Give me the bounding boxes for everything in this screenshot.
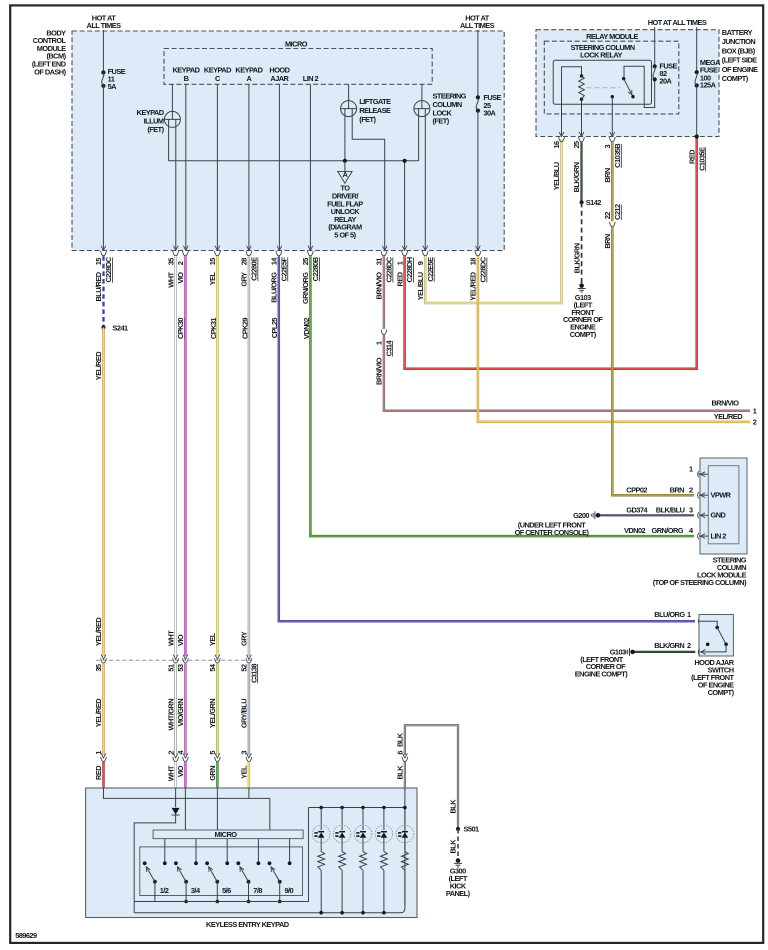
svg-text:C1035E: C1035E: [697, 147, 706, 171]
svg-text:C228DC: C228DC: [385, 256, 394, 282]
svg-text:9: 9: [416, 261, 425, 265]
wire from HOT AT ALL TIMES to fuse 25: [477, 30, 479, 97]
svg-text:YEL: YEL: [208, 632, 217, 646]
svg-text:YEL/BLU: YEL/BLU: [416, 272, 425, 300]
wire WHT into keypad: [175, 788, 177, 807]
svg-text:C22E5F: C22E5F: [279, 256, 288, 281]
wire YEL/RED BCM pin 18 to right edge pin 2: [478, 256, 750, 422]
svg-text:HOT AT ALL TIMES: HOT AT ALL TIMES: [648, 18, 707, 27]
switch 3/4: [174, 861, 201, 894]
svg-text:31: 31: [375, 258, 384, 266]
wire resistor R2 to bottom rail: [341, 870, 343, 912]
svg-text:GD374: GD374: [626, 505, 648, 514]
svg-text:25: 25: [301, 258, 310, 266]
pin 35 WHT of BCM + circuit CPK30: [166, 251, 185, 339]
svg-text:RED: RED: [395, 271, 404, 286]
resistor R5 (keypad LED): [402, 852, 409, 871]
svg-text:16: 16: [552, 141, 561, 149]
svg-text:LOCK RELAY: LOCK RELAY: [580, 51, 622, 60]
svg-text:BLU/ORG: BLU/ORG: [654, 610, 685, 619]
pin 2 VIO of BCM: [176, 251, 188, 283]
svg-text:589629: 589629: [15, 931, 37, 940]
wire YEL/GRN C3138 to keypad connector pin 5: [216, 664, 219, 755]
svg-text:COMPT): COMPT): [722, 74, 749, 83]
labels KEYPAD B / KEYPAD C / KEYPAD A / HOOD AJAR / LIN 2: [173, 66, 319, 83]
pin 25 GRN/ORG of BCM + connector C2280B + circuit VDN02: [301, 251, 320, 339]
transistor LIFTGATE RELEASE (FET): [341, 84, 391, 250]
svg-text:BATTERY: BATTERY: [722, 28, 753, 37]
svg-text:BLU/RED: BLU/RED: [94, 271, 103, 301]
svg-text:1: 1: [689, 465, 693, 474]
connector C3138 (inline): [94, 655, 258, 683]
svg-text:28: 28: [240, 258, 249, 266]
pin 9 YEL/BLU of BCM + connector C22E5E: [416, 251, 435, 300]
wire diode to switch common rail: [134, 815, 175, 913]
svg-text:BLK: BLK: [396, 732, 405, 747]
wire HOT AT ALL TIMES to mega fuse: [696, 27, 698, 72]
svg-text:YEL/RED: YEL/RED: [469, 271, 478, 300]
wire keypad bottom rail: [134, 808, 405, 913]
splice S241: [101, 324, 128, 333]
svg-text:(TOP OF STEERING COLUMN): (TOP OF STEERING COLUMN): [653, 578, 747, 587]
module box: RELAY MODULE / BJB: [536, 30, 719, 137]
wire GRN/ORG BCM pin 25 to module pin 4 LIN 2: [310, 256, 694, 536]
wire MICRO to switch 1/2: [164, 839, 166, 864]
wire WHT/GRN C3138 to keypad connector pin 2: [174, 664, 177, 755]
wire BRN/VIO from C314 to right edge pin 1: [384, 335, 750, 411]
wire BRN relay pin 3 to connector C212: [611, 142, 614, 221]
switch 1/2: [143, 861, 169, 894]
wire relay pin 3 to box edge: [611, 104, 613, 136]
svg-text:MICRO: MICRO: [215, 830, 238, 839]
svg-text:VIO: VIO: [176, 765, 185, 777]
fuse 82 20A: [653, 62, 678, 86]
module box: STEERING COLUMN LOCK RELAY (inner dashed): [544, 41, 679, 114]
svg-text:RED: RED: [687, 149, 696, 164]
svg-text:YEL: YEL: [208, 271, 217, 285]
svg-text:LIN 2: LIN 2: [303, 74, 319, 83]
pin 1 RED of BCM + connector C228DH: [395, 251, 414, 286]
svg-text:C314: C314: [384, 340, 393, 357]
svg-text:AJAR: AJAR: [270, 74, 289, 83]
pin 25 BLK/GRN of relay module: [572, 137, 584, 192]
svg-text:C1035B: C1035B: [613, 144, 622, 168]
pin 2 VPWR of module: [626, 485, 731, 499]
svg-text:3: 3: [689, 505, 693, 514]
svg-text:WHT: WHT: [166, 271, 175, 287]
svg-text:1: 1: [395, 261, 404, 265]
module box: KEYLESS ENTRY KEYPAD: [86, 788, 417, 918]
wire switch 7/8 to common rail: [248, 882, 250, 902]
svg-text:3/4: 3/4: [191, 886, 201, 895]
svg-text:(FET): (FET): [359, 115, 376, 124]
svg-text:7/8: 7/8: [253, 886, 262, 895]
resistor R4 (keypad LED): [381, 852, 388, 871]
svg-text:22: 22: [603, 212, 612, 220]
wire LIN 2 to BCM pin 25: [309, 84, 311, 250]
wire VIO/GRN C3138 to keypad connector pin 4: [184, 664, 187, 755]
wire MICRO to switch 5/6: [226, 839, 228, 864]
wire switch 1/2 to common rail: [154, 882, 156, 902]
label HOT AT ALL TIMES (middle): [460, 13, 495, 30]
svg-text:18: 18: [469, 258, 478, 266]
svg-text:RELAY MODULE: RELAY MODULE: [586, 32, 638, 41]
svg-text:RED: RED: [94, 765, 103, 780]
LED 3 (keypad illumination): [354, 806, 372, 852]
svg-text:GRY/BLU: GRY/BLU: [240, 699, 249, 728]
wire fuse 11 to BCM pin 15: [102, 86, 104, 251]
svg-text:BRN/VIO: BRN/VIO: [712, 398, 740, 407]
svg-text:C212: C212: [613, 204, 622, 220]
svg-text:5/6: 5/6: [222, 886, 231, 895]
wire BRN from C212 to module pin 2 VPWR: [612, 227, 694, 495]
diode D1 (keypad feed): [172, 808, 180, 815]
svg-text:1: 1: [94, 751, 103, 755]
wire MICRO to switch 7/8: [257, 839, 259, 864]
connector C212 pin 22: [603, 204, 622, 249]
svg-text:OF DASH): OF DASH): [34, 67, 66, 76]
svg-text:MICRO: MICRO: [285, 39, 308, 48]
svg-text:3: 3: [240, 751, 249, 755]
wire GRN into keypad MICRO: [216, 788, 218, 830]
label HOT AT ALL TIMES (left): [87, 13, 122, 30]
svg-text:BRN/VIO: BRN/VIO: [375, 357, 384, 385]
pin 15 BLU/RED of BCM + connector C228DC: [94, 251, 113, 301]
wire BLK from LED rail to keypad connector pin 6: [404, 788, 406, 808]
wire BLK keypad to splice S501: [405, 725, 458, 829]
svg-text:1/2: 1/2: [160, 886, 169, 895]
module box: BODY CONTROL MODULE (BCM): [72, 31, 504, 251]
wire YEL into keypad: [248, 788, 250, 798]
svg-text:BLK/GRN: BLK/GRN: [654, 641, 684, 650]
wire YEL BCM pin 15 to connector C3138: [216, 256, 219, 656]
svg-text:OF ENGINE: OF ENGINE: [722, 65, 758, 74]
pin 15 YEL of BCM + circuit CPK31: [208, 251, 220, 339]
LED 4 (keypad illumination): [375, 806, 393, 852]
svg-text:YEL/GRN: YEL/GRN: [208, 699, 217, 728]
fuse 11 5A: [101, 67, 125, 91]
wire switch common rail: [134, 808, 308, 902]
node RED at box edge: [695, 134, 699, 138]
svg-text:2: 2: [753, 417, 757, 426]
svg-text:C2280E: C2280E: [250, 257, 259, 281]
fuse MEGA FUSE 100 125A: [695, 58, 721, 89]
svg-text:VIO: VIO: [176, 272, 185, 284]
pin 1 of module (stub): [689, 465, 708, 478]
svg-text:BLK/GRN: BLK/GRN: [572, 162, 581, 192]
wire KEYPAD A to BCM pin 28: [248, 84, 250, 250]
label hood ajar switch: [691, 658, 735, 697]
svg-text:BLK/GRN: BLK/GRN: [572, 243, 581, 273]
LED 1 (keypad illumination): [312, 806, 330, 852]
wire mega fuse to box edge: [696, 86, 698, 137]
svg-text:ALL TIMES: ALL TIMES: [87, 21, 122, 30]
svg-text:BLK/BLU: BLK/BLU: [656, 505, 685, 514]
svg-text:35: 35: [94, 664, 103, 672]
svg-text:2: 2: [166, 751, 175, 755]
svg-text:C2280B: C2280B: [311, 257, 320, 281]
wire KEYPAD B to BCM pin 2: [185, 84, 187, 250]
wire HOT AT ALL TIMES to fuse 82: [654, 27, 656, 66]
module box: STEERING COLUMN LOCK MODULE: [653, 458, 747, 587]
svg-text:125A: 125A: [700, 80, 717, 89]
svg-text:GRY: GRY: [240, 272, 249, 287]
svg-text:(FET): (FET): [433, 117, 450, 126]
wire GRY BCM pin 28 to connector C3138: [248, 256, 251, 656]
svg-text:VIO/GRN: VIO/GRN: [176, 699, 185, 727]
label BLU/ORG pin 1 of hood ajar switch: [654, 610, 705, 624]
wire GRN keypad connector to keypad: [216, 762, 219, 788]
wire BLU/ORG BCM pin 14 to hood ajar switch pin 1: [279, 256, 695, 621]
ground G103: [563, 283, 603, 339]
wire BLK/GRN hood ajar switch to ground G103: [634, 651, 695, 653]
svg-text:B: B: [184, 74, 189, 83]
node junction to relay A: [343, 159, 347, 163]
fuse 25 30A: [476, 93, 502, 117]
svg-text:CPK30: CPK30: [176, 318, 185, 340]
svg-text:WHT: WHT: [166, 765, 175, 781]
svg-text:GND: GND: [711, 511, 727, 520]
splice S142: [580, 198, 602, 207]
svg-text:52: 52: [240, 664, 249, 672]
svg-text:25: 25: [572, 141, 581, 149]
wire MICRO to switch 9/0: [289, 839, 291, 864]
svg-text:YEL/BLU: YEL/BLU: [552, 162, 561, 190]
wire MICRO to switch 3/4: [195, 839, 197, 864]
wire VIO into keypad MICRO: [184, 788, 186, 830]
svg-text:51: 51: [166, 664, 175, 672]
svg-text:GRY: GRY: [240, 631, 249, 646]
wire WHT BCM pin 35 to connector C3138: [174, 256, 177, 656]
wire BLK/GRN S142 to ground G103 (dashed): [581, 202, 583, 283]
wire VIO keypad connector to keypad: [184, 762, 187, 788]
svg-text:5A: 5A: [108, 82, 118, 91]
resistor R1 (keypad LED): [318, 852, 325, 871]
svg-text:VIO: VIO: [176, 634, 185, 646]
svg-text:OF CENTER CONSOLE): OF CENTER CONSOLE): [515, 528, 590, 537]
pin 14 BLU/ORG of BCM + connector C22E5F + circuit CPL25: [270, 251, 289, 338]
svg-text:S142: S142: [586, 198, 602, 207]
svg-text:5: 5: [208, 751, 217, 755]
svg-text:BRN: BRN: [603, 234, 612, 249]
pin 4 LIN 2 of module: [624, 526, 726, 540]
wire YEL keypad connector to keypad: [248, 762, 251, 788]
ground G103 (hood ajar): [575, 647, 635, 678]
wire BRN/VIO BCM pin 31 to connector C314: [383, 256, 386, 329]
box: keypad switch bank: [140, 847, 303, 896]
keypad connector pins: [94, 750, 252, 762]
svg-text:15: 15: [208, 258, 217, 266]
wire FET output rail: [169, 160, 419, 162]
wire KEYPAD C to BCM pin 15: [216, 84, 218, 250]
wire RED keypad connector to keypad: [102, 762, 105, 788]
svg-text:LIFTGATE: LIFTGATE: [359, 97, 391, 106]
pin 28 GRY of BCM + connector C2280E + circuit CPK29: [240, 251, 259, 339]
wire from HOT AT ALL TIMES to fuse 11: [102, 30, 104, 73]
svg-text:RELEASE: RELEASE: [359, 106, 391, 115]
svg-text:2: 2: [687, 641, 691, 650]
svg-text:2: 2: [176, 261, 185, 265]
resistor R2 (keypad LED): [339, 852, 346, 871]
svg-text:9/0: 9/0: [284, 886, 293, 895]
label BLK/GRN pin 2 of hood ajar switch: [654, 641, 705, 655]
svg-text:5 OF 5): 5 OF 5): [334, 231, 356, 240]
switch 5/6: [205, 861, 231, 894]
wire BLU/RED BCM pin 15 to splice S241: [102, 256, 104, 327]
svg-text:53: 53: [176, 664, 185, 672]
svg-text:VPWR: VPWR: [711, 491, 732, 500]
wire BLK S501 to ground G300 (dashed): [457, 829, 459, 859]
svg-text:COMPT): COMPT): [708, 688, 735, 697]
wire junction to BCM pin 1: [404, 161, 406, 251]
svg-text:BRN: BRN: [670, 485, 685, 494]
wire BLK/BLU module pin 3 to ground G200: [600, 514, 694, 516]
svg-text:1: 1: [753, 406, 757, 415]
wire GRY/BLU C3138 to keypad connector pin 3: [248, 664, 251, 755]
transistor KEYPAD ILLUM (FET): [137, 84, 181, 250]
splice S501: [456, 825, 479, 834]
switch 9/0: [268, 861, 294, 894]
wire resistor R3 to bottom rail: [362, 870, 364, 912]
svg-text:BRN/VIO: BRN/VIO: [375, 272, 384, 300]
svg-text:YEL/RED: YEL/RED: [94, 698, 103, 727]
wire resistor R1 to bottom rail: [320, 870, 322, 912]
svg-text:2: 2: [689, 485, 693, 494]
svg-text:CPP02: CPP02: [626, 485, 647, 494]
svg-text:PANEL): PANEL): [446, 889, 471, 898]
wire relay pin 16 to box edge: [561, 104, 563, 136]
svg-text:KEYLESS ENTRY KEYPAD: KEYLESS ENTRY KEYPAD: [206, 920, 290, 929]
svg-text:BLK: BLK: [396, 765, 405, 780]
svg-text:S501: S501: [464, 825, 480, 834]
LED 2 (keypad illumination): [333, 806, 351, 852]
svg-text:C228DH: C228DH: [405, 257, 414, 282]
connector C314 pin 1: [375, 330, 394, 385]
wire switch 9/0 to common rail: [279, 882, 281, 902]
LED 5 (keypad illumination): [396, 808, 414, 852]
svg-text:WHT/GRN: WHT/GRN: [166, 699, 175, 731]
svg-text:WHT: WHT: [166, 630, 175, 646]
svg-text:YEL: YEL: [240, 765, 249, 779]
off-page connector A: TO DRIVER/FUEL FLAP UNLOCK RELAY: [327, 161, 363, 240]
wire resistor R4 to bottom rail: [383, 870, 385, 912]
wire YEL/RED C3138 to keypad connector pin 1: [102, 664, 105, 755]
svg-text:GRN: GRN: [208, 766, 217, 781]
svg-text:BLK: BLK: [449, 799, 458, 814]
pin 16 YEL/BLU of relay module: [552, 137, 564, 190]
label BODY CONTROL MODULE (BCM) (LEFT END OF DASH): [32, 28, 67, 76]
wire BLK/GRN relay pin 25 to splice S142: [580, 142, 582, 202]
wire YEL/BLU BCM pin 9 to relay pin 16: [425, 139, 561, 303]
svg-text:GRN/ORG: GRN/ORG: [652, 526, 684, 535]
pin 18 YEL/RED of BCM + connector C228DC: [469, 251, 488, 301]
wire YEL/RED from S241 to connector C3138: [102, 328, 105, 657]
wire HOOD AJAR to BCM pin 14: [278, 84, 280, 250]
svg-text:(LEFT SIDE: (LEFT SIDE: [722, 56, 757, 65]
svg-text:YEL/RED: YEL/RED: [714, 412, 743, 421]
resistor R3 (keypad LED): [360, 852, 367, 871]
pin 31 BRN/VIO of BCM + connector C228DC: [375, 251, 394, 299]
wire relay pin 25 to box edge: [581, 104, 583, 136]
wire switch 5/6 to common rail: [216, 882, 218, 902]
svg-text:15: 15: [94, 258, 103, 266]
svg-text:6: 6: [396, 751, 405, 755]
svg-text:1: 1: [375, 341, 384, 345]
switch: hood ajar switch: [699, 615, 733, 657]
wire RED BCM pin 1 to mega fuse via C1035E: [405, 137, 697, 369]
svg-text:G200: G200: [573, 511, 589, 520]
svg-text:20A: 20A: [659, 77, 672, 86]
svg-text:JUNCTION: JUNCTION: [722, 37, 756, 46]
svg-text:BLK: BLK: [449, 839, 458, 854]
ground G200: [515, 511, 601, 537]
svg-text:ALL TIMES: ALL TIMES: [460, 21, 495, 30]
svg-text:30A: 30A: [483, 109, 496, 118]
svg-text:C22E5E: C22E5E: [426, 257, 435, 282]
module box: MICRO (keypad): [153, 830, 303, 839]
wire WHT keypad connector to keypad: [174, 762, 177, 788]
pin 3 BRN of relay module + connector C1035B: [603, 137, 622, 183]
wire LED anode rail: [309, 807, 405, 809]
module box: MICRO (inside BCM): [164, 49, 432, 85]
svg-text:COMPT): COMPT): [570, 330, 597, 339]
svg-text:35: 35: [166, 258, 175, 266]
svg-text:3: 3: [603, 145, 612, 149]
svg-text:C228DC: C228DC: [479, 256, 488, 282]
svg-text:YEL/RED: YEL/RED: [94, 617, 103, 646]
wire switch 3/4 to common rail: [185, 882, 187, 902]
pin 3 GND of module + ground G200: [626, 505, 726, 519]
relay K1: steering column lock relay: [553, 60, 655, 107]
ground G300 (LEFT KICK PANEL): [446, 858, 471, 898]
svg-text:LIN 2: LIN 2: [711, 532, 727, 541]
svg-text:GRN/ORG: GRN/ORG: [301, 272, 310, 304]
svg-text:BRN: BRN: [603, 168, 612, 183]
svg-text:BOX (BJB): BOX (BJB): [722, 46, 756, 55]
svg-text:C3138: C3138: [249, 664, 258, 683]
svg-text:(FET): (FET): [147, 125, 164, 134]
svg-text:BLU/ORG: BLU/ORG: [270, 272, 279, 303]
wire RED feed inside keypad: [104, 788, 270, 830]
wire VIO BCM pin 2 to connector C3138: [184, 256, 187, 656]
svg-text:ENGINE COMPT): ENGINE COMPT): [575, 670, 628, 679]
svg-text:S241: S241: [113, 324, 129, 333]
transistor STEERING COLUMN LOCK (FET): [414, 84, 467, 250]
label BATTERY JUNCTION BOX (BJB) (LEFT SIDE OF ENGINE COMPT): [722, 28, 758, 83]
svg-text:VDN02: VDN02: [624, 526, 646, 535]
svg-text:C228DC: C228DC: [104, 256, 113, 282]
wire fuse 25 to BCM pin 18: [477, 111, 479, 251]
svg-text:YEL/RED: YEL/RED: [94, 351, 103, 380]
switch 7/8: [236, 861, 262, 894]
svg-text:1: 1: [687, 610, 691, 619]
wire resistor R5 to bottom rail: [404, 870, 406, 905]
